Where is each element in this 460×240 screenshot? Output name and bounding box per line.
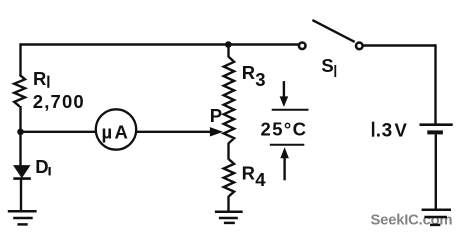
svg-text:R: R [33, 68, 46, 89]
battery BT1 positive plate [420, 123, 453, 126]
svg-text:R: R [242, 163, 255, 184]
annotation tick line upper [272, 109, 309, 111]
switch S1 left terminal [299, 43, 306, 50]
wire battery to ground [435, 134, 437, 210]
svg-text:µ: µ [102, 122, 113, 143]
svg-text:3: 3 [382, 121, 393, 142]
node junction left (wire to meter) [17, 129, 24, 136]
meter M1 (microammeter µA) [96, 109, 136, 149]
svg-text:2,700: 2,700 [33, 91, 85, 112]
ground (middle, below R4) [215, 212, 243, 223]
battery BT1 negative plate [427, 130, 443, 134]
diode D1 [14, 166, 30, 178]
wire switch to top-right corner [364, 44, 436, 46]
resistor R4 (lower half of potentiometer) [224, 159, 234, 196]
svg-text:S: S [321, 55, 333, 76]
svg-text:P: P [210, 105, 222, 126]
wire junction to R3 [227, 45, 229, 58]
annotation arrow up (25°C setting, lower) [280, 147, 289, 158]
wire diode to ground [20, 179, 22, 211]
svg-text:3: 3 [255, 69, 265, 90]
svg-text:25°C: 25°C [261, 119, 308, 140]
wire top horizontal (top-left corner to switch S1 left terminal) [21, 43, 299, 45]
annotation arrow down (25°C setting, upper) [283, 81, 285, 98]
svg-text:D: D [35, 156, 48, 177]
svg-text:A: A [115, 121, 128, 142]
wire left vertical middle (R1 to diode D1) [19, 106, 21, 167]
svg-text:R: R [242, 62, 255, 83]
wire between potentiometer sections [227, 143, 229, 160]
ground (right, below battery) [422, 210, 451, 225]
resistor R3 (upper half of potentiometer) [224, 57, 234, 143]
svg-text:.: . [376, 121, 381, 142]
wire middle horizontal (left junction to meter) [21, 131, 96, 133]
label 1.3V [372, 122, 374, 137]
wire right vertical (corner to battery) [434, 44, 436, 123]
resistor R1 [14, 75, 25, 107]
switch S1 blade [312, 20, 354, 42]
wire meter to potentiometer wiper (with arrowhead) [137, 131, 213, 133]
wire R4 to ground [227, 196, 229, 212]
svg-text:V: V [395, 120, 408, 141]
ground (left, below D1) [8, 211, 37, 224]
node junction top of R3 [225, 41, 232, 48]
svg-text:4: 4 [255, 169, 266, 190]
wire left vertical upper (corner down to R1) [19, 43, 21, 75]
switch S1 right terminal [356, 43, 363, 50]
annotation tick line lower [270, 144, 305, 146]
